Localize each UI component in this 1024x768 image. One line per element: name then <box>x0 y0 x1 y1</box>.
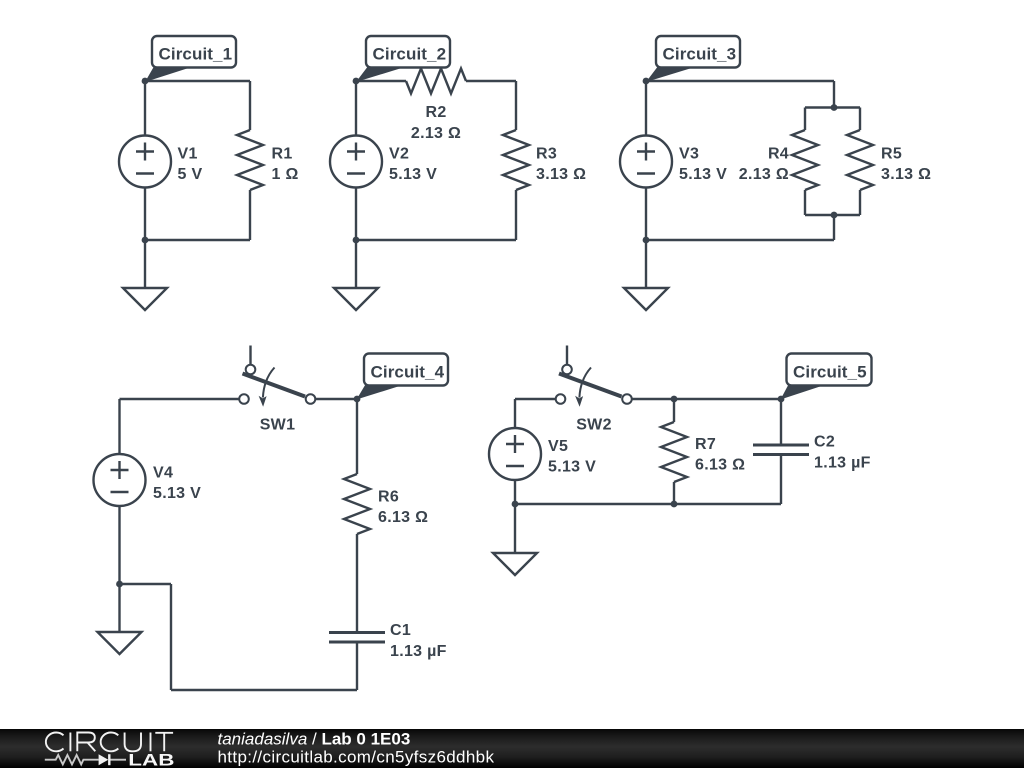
wire left parallel branch lower stub circuit 3 <box>804 190 806 215</box>
switch SW2 <box>556 346 632 407</box>
svg-text:SW2: SW2 <box>576 416 612 433</box>
wire bottom rail circuit 3 <box>646 239 834 241</box>
svg-text:5.13 V: 5.13 V <box>548 459 596 476</box>
wire left branch lower circuit 3 <box>645 188 647 241</box>
wire left branch upper circuit 2 <box>355 81 357 136</box>
footer bar <box>0 729 1024 768</box>
wire right parallel branch lower stub circuit 3 <box>859 190 861 215</box>
wire right branch upper circuit 2 <box>515 81 517 130</box>
capacitor C2 <box>753 445 809 455</box>
svg-text:Circuit_2: Circuit_2 <box>373 45 447 64</box>
wire bottom return path circuit 4 <box>120 584 358 690</box>
svg-text:V5: V5 <box>548 438 568 455</box>
node circuit 2 top <box>353 78 360 85</box>
wire switch SW2 right to C2 top circuit 5 <box>632 398 781 400</box>
ground circuit 5 <box>493 504 537 575</box>
node circuit 1 top <box>142 78 149 85</box>
wire C2 lower stub circuit 5 <box>780 455 782 505</box>
wire left branch lower circuit 2 <box>355 188 357 241</box>
wire top rail circuit 3 <box>646 80 834 82</box>
wire from parallel pair down circuit 3 <box>833 215 835 240</box>
wire C1 bottom circuit 4 <box>356 642 358 690</box>
svg-text:1.13 µF: 1.13 µF <box>814 454 871 471</box>
resistor R1 <box>237 130 263 190</box>
voltage source V5 <box>489 428 541 480</box>
resistor R6 <box>344 474 370 534</box>
wire bottom rail circuit 2 <box>356 239 516 241</box>
svg-text:3.13 Ω: 3.13 Ω <box>881 166 931 183</box>
wire bottom rail circuit 1 <box>145 239 250 241</box>
wire R7 lower stub circuit 5 <box>673 482 675 504</box>
svg-text:Circuit_1: Circuit_1 <box>159 45 233 64</box>
node circuit 5 bottom left <box>512 501 519 508</box>
balloon label Circuit_4 <box>357 354 449 400</box>
node circuit 3 top <box>643 78 650 85</box>
node circuit 3 parallel top junction <box>831 104 838 111</box>
svg-text:6.13 Ω: 6.13 Ω <box>378 509 428 526</box>
wire switch SW1 right to node circuit 4 <box>315 398 357 400</box>
balloon label Circuit_2 <box>356 36 450 82</box>
svg-text:LAB: LAB <box>128 751 174 768</box>
balloon label Circuit_3 <box>646 36 740 82</box>
node circuit 4 bottom <box>116 581 123 588</box>
svg-text:C1: C1 <box>390 622 411 639</box>
svg-text:5 V: 5 V <box>178 166 203 183</box>
node circuit 2 bottom <box>353 237 360 244</box>
svg-text:V2: V2 <box>389 145 409 162</box>
svg-text:1.13 µF: 1.13 µF <box>390 643 447 660</box>
ground circuit 2 <box>334 240 378 310</box>
wire top rail right circuit 2 <box>466 80 516 82</box>
node circuit 4 top <box>354 396 361 403</box>
wire bottom rail circuit 5 <box>515 503 781 505</box>
svg-text:R7: R7 <box>695 436 716 453</box>
CircuitLab logo wordmark CIRCUIT <box>46 733 173 752</box>
node circuit 1 bottom <box>142 237 149 244</box>
wire R6 to C1 circuit 4 <box>356 534 358 633</box>
resistor R5 <box>847 130 873 190</box>
svg-text:R2: R2 <box>425 104 446 121</box>
balloon label Circuit_1 <box>145 36 236 82</box>
wire V5 top to switch SW2 circuit 5 <box>515 399 556 428</box>
wire right branch lower circuit 1 <box>249 190 251 240</box>
voltage source V4 <box>94 454 146 506</box>
svg-text:5.13 V: 5.13 V <box>153 485 201 502</box>
CircuitLab logo resistor-diode line <box>45 754 126 765</box>
voltage source V3 <box>620 136 672 188</box>
wire left parallel branch upper stub circuit 3 <box>804 108 806 131</box>
ground circuit 4 <box>98 584 142 654</box>
svg-text:R5: R5 <box>881 145 902 162</box>
resistor R7 <box>661 422 687 482</box>
switch SW1 <box>239 346 315 407</box>
resistor R4 <box>792 130 818 190</box>
wire V4 bottom to node circuit 4 <box>118 506 120 584</box>
svg-text:V4: V4 <box>153 464 173 481</box>
wire top rail circuit 1 <box>145 80 250 82</box>
node circuit 5 R7 bottom <box>671 501 678 508</box>
svg-text:V1: V1 <box>178 145 198 162</box>
svg-text:R6: R6 <box>378 488 399 505</box>
svg-text:6.13 Ω: 6.13 Ω <box>695 457 745 474</box>
component text labels <box>153 104 931 660</box>
svg-text:Circuit_3: Circuit_3 <box>663 45 737 64</box>
svg-text:5.13 V: 5.13 V <box>679 166 727 183</box>
svg-text:taniadasilva / Lab 0 1E03: taniadasilva / Lab 0 1E03 <box>218 730 411 749</box>
wire left branch upper circuit 1 <box>144 81 146 136</box>
wire R7 upper stub circuit 5 <box>673 399 675 422</box>
wire node down to R6 circuit 4 <box>356 399 358 474</box>
svg-text:R4: R4 <box>768 145 789 162</box>
wire right parallel branch upper stub circuit 3 <box>859 108 861 131</box>
wire right branch upper circuit 1 <box>249 81 251 130</box>
ground circuit 3 <box>624 240 668 310</box>
wire feed down to parallel pair circuit 3 <box>833 81 835 108</box>
wire left branch lower circuit 1 <box>144 188 146 241</box>
svg-text:2.13 Ω: 2.13 Ω <box>739 166 789 183</box>
svg-text:R3: R3 <box>536 145 557 162</box>
node circuit 5 R7 top <box>671 396 678 403</box>
resistor R3 <box>503 130 529 190</box>
svg-text:Circuit_5: Circuit_5 <box>793 363 867 382</box>
wire V5 bottom stub circuit 5 <box>514 480 516 504</box>
node circuit 5 C2 top <box>778 396 785 403</box>
node circuit 3 bottom <box>643 237 650 244</box>
voltage source V2 <box>330 136 382 188</box>
svg-text:2.13 Ω: 2.13 Ω <box>411 125 461 142</box>
node circuit 3 parallel bottom junction <box>831 212 838 219</box>
svg-text:SW1: SW1 <box>260 416 296 433</box>
svg-text:R1: R1 <box>272 145 293 162</box>
svg-text:3.13 Ω: 3.13 Ω <box>536 166 586 183</box>
wire left branch upper circuit 3 <box>645 81 647 136</box>
voltage source V1 <box>119 136 171 188</box>
svg-text:http://circuitlab.com/cn5yfsz6: http://circuitlab.com/cn5yfsz6ddhbk <box>218 748 495 767</box>
resistor R2 <box>406 69 466 94</box>
svg-text:Circuit_4: Circuit_4 <box>371 363 445 382</box>
node dots <box>116 78 837 588</box>
svg-text:1 Ω: 1 Ω <box>272 166 299 183</box>
wire C2 upper stub circuit 5 <box>780 399 782 445</box>
wire bottom bar of parallel pair circuit 3 <box>805 214 860 216</box>
wire from switch SW1 left to V4 top <box>120 399 240 454</box>
svg-text:5.13 V: 5.13 V <box>389 166 437 183</box>
svg-text:C2: C2 <box>814 434 835 451</box>
wire top rail left circuit 2 <box>356 80 406 82</box>
ground circuit 1 <box>123 240 167 310</box>
wire right branch lower circuit 2 <box>515 190 517 240</box>
svg-text:V3: V3 <box>679 145 699 162</box>
wire top bar of parallel pair circuit 3 <box>805 106 860 108</box>
balloon label Circuit_5 <box>781 354 872 400</box>
capacitor C1 <box>329 633 385 643</box>
